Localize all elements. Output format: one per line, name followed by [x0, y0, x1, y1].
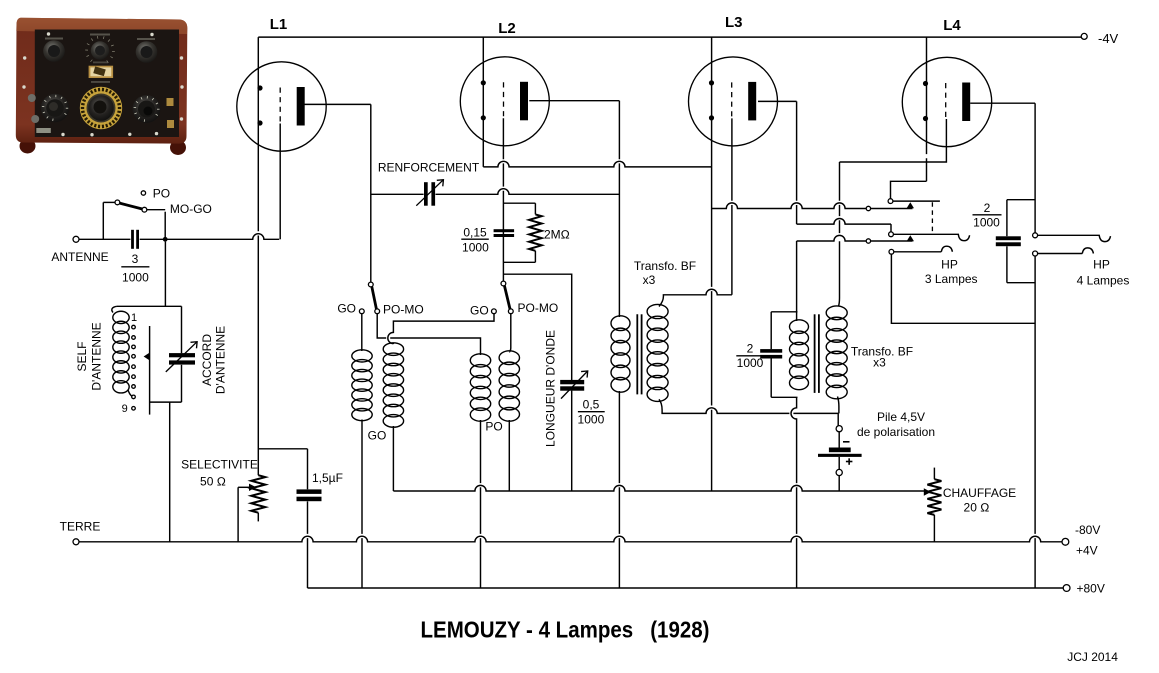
- svg-text:PO-MO: PO-MO: [383, 303, 424, 317]
- wire antenna line: [79, 234, 279, 240]
- svg-text:L4: L4: [943, 17, 961, 34]
- inductor SELF D'ANTENNE: [75, 306, 134, 396]
- capacitor RENFORCEMENT variable: [378, 161, 480, 206]
- svg-text:+80V: +80V: [1077, 581, 1105, 595]
- switch 1 GO PO-MO: [337, 282, 423, 316]
- svg-text:Pile 4,5V: Pile 4,5V: [877, 410, 925, 424]
- transformer Transfo BF x3 (1) primary: [611, 316, 630, 392]
- wire L2 filament line: [482, 37, 484, 167]
- wire lower fixed contact line: [797, 235, 913, 243]
- wire coil A down: [361, 420, 363, 589]
- wire L4 grid line: [840, 119, 947, 162]
- svg-text:50 Ω: 50 Ω: [200, 475, 226, 489]
- svg-text:1000: 1000: [578, 412, 605, 426]
- wire tank bottom rail: [150, 401, 182, 403]
- svg-text:-80V: -80V: [1075, 523, 1100, 537]
- svg-text:GO: GO: [470, 304, 489, 318]
- tube L2: [460, 20, 549, 146]
- svg-text:JCJ 2014: JCJ 2014: [1067, 650, 1118, 664]
- wire to longueur cap: [503, 274, 571, 380]
- svg-text:de polarisation: de polarisation: [857, 425, 935, 439]
- wire renforcement line: [371, 189, 620, 195]
- wire grid coupling link: [388, 314, 494, 344]
- wire L3 grid line: [731, 118, 733, 294]
- wire transfo2 secondary top to L4 grid: [838, 162, 839, 307]
- wire L3 filament line: [711, 37, 713, 491]
- wire +80V bus: [308, 587, 1064, 589]
- svg-text:1000: 1000: [973, 216, 1000, 230]
- wire -4V top bus: [258, 36, 1081, 38]
- svg-text:D'ANTENNE: D'ANTENNE: [89, 322, 103, 390]
- svg-text:PO-MO: PO-MO: [518, 301, 559, 315]
- wire transfo1 primary down: [618, 391, 620, 588]
- terminal +80V: [1063, 581, 1105, 595]
- terminal ANTENNE: [51, 236, 108, 264]
- wire selectivite top to 1,5uF: [258, 448, 307, 450]
- wire L3 plate down: [796, 101, 798, 224]
- svg-text:4 Lampes: 4 Lampes: [1077, 273, 1130, 287]
- svg-text:3: 3: [132, 252, 139, 266]
- svg-text:CHAUFFAGE: CHAUFFAGE: [943, 486, 1016, 500]
- inductor coil B grid: [383, 343, 403, 427]
- wire L3 plate to lower blade: [797, 219, 891, 232]
- wire GO1 to coil A: [361, 314, 363, 351]
- capacitor 2/1000 transfo2 parallel: [736, 312, 797, 398]
- capacitor ACCORD D'ANTENNE variable: [166, 306, 228, 402]
- svg-text:GO: GO: [337, 302, 356, 316]
- wire coil D to filament bus: [508, 420, 510, 491]
- wire L1 grid line: [279, 124, 281, 240]
- svg-text:PO: PO: [153, 187, 170, 201]
- wire L1 filament line: [257, 37, 259, 475]
- wire longueur cap down: [571, 391, 573, 491]
- svg-text:L3: L3: [725, 14, 743, 31]
- svg-text:1000: 1000: [462, 241, 489, 255]
- switch MO-GO antenna shorting: [103, 187, 212, 240]
- mechanical link dashed: [931, 202, 933, 233]
- svg-text:1: 1: [131, 312, 137, 324]
- transformer Transfo BF x3 (1) secondary: [634, 259, 696, 402]
- svg-text:PO: PO: [485, 420, 502, 434]
- inductor coil D: [499, 351, 519, 421]
- svg-text:+4V: +4V: [1076, 544, 1098, 558]
- wire 2M rail bottom: [503, 261, 535, 263]
- svg-text:D'ANTENNE: D'ANTENNE: [214, 326, 228, 394]
- svg-text:L1: L1: [270, 16, 288, 33]
- wire transfo2 primary feed: [796, 241, 798, 321]
- wire L4 plate lead: [970, 102, 1035, 104]
- wire transfo2 primary down: [791, 397, 797, 588]
- svg-text:MO-GO: MO-GO: [170, 202, 212, 216]
- switch upper blade: [888, 199, 940, 208]
- svg-text:SELF: SELF: [75, 341, 89, 371]
- svg-text:RENFORCEMENT: RENFORCEMENT: [378, 161, 480, 175]
- tube L4: [902, 17, 991, 147]
- wire L4 filament to upper blade: [891, 181, 927, 198]
- svg-text:3 Lampes: 3 Lampes: [925, 272, 978, 286]
- svg-text:0,15: 0,15: [463, 225, 487, 239]
- wire L4 filament line: [926, 37, 928, 181]
- transformer Transfo BF x3 (2) secondary: [826, 306, 913, 399]
- svg-text:2: 2: [984, 201, 991, 215]
- svg-text:LEMOUZY - 4 Lampes (1928): LEMOUZY - 4 Lampes (1928): [421, 617, 710, 643]
- svg-text:1,5µF: 1,5µF: [312, 471, 343, 485]
- capacitor 3/1000 antenna series: [121, 230, 149, 285]
- photo of LEMOUZY radio cabinet: [16, 18, 188, 155]
- terminal -4V: [1081, 31, 1118, 46]
- wire coil B to filament bus: [392, 426, 394, 491]
- svg-text:x3: x3: [873, 356, 886, 370]
- svg-text:SELECTIVITE: SELECTIVITE: [181, 458, 258, 472]
- svg-text:HP: HP: [1093, 258, 1110, 272]
- capacitor LONGUEUR D'ONDE 0,5/1000: [544, 330, 605, 447]
- wire tank feed: [164, 242, 166, 307]
- wire L2 plate down / transfo1 primary: [618, 101, 620, 317]
- wire tank top rail: [117, 305, 182, 307]
- svg-text:1000: 1000: [122, 271, 149, 285]
- signature: [1067, 650, 1118, 664]
- battery Pile 4,5V de polarisation: [818, 410, 935, 491]
- wire transfo1 secondary top to L3 grid: [659, 289, 732, 306]
- connector HP 4 Lampes: [1033, 233, 1130, 287]
- svg-text:0,5: 0,5: [583, 397, 600, 411]
- wire tank to TERRE: [169, 402, 171, 542]
- tube L1: [237, 16, 326, 151]
- svg-text:9: 9: [122, 403, 128, 415]
- switch 2 GO PO-MO: [470, 281, 558, 317]
- resistor SELECTIVITE 50 ohm: [181, 458, 265, 542]
- inductor coil C PO: [470, 354, 502, 434]
- wire L3 plate lead: [758, 100, 797, 102]
- svg-text:HP: HP: [941, 257, 958, 271]
- wire L1 plate lead: [304, 104, 371, 282]
- capacitor 0,15/1000 grid: [461, 225, 514, 254]
- wire 2M rail top: [503, 202, 535, 204]
- terminal -80V +4V: [1062, 523, 1100, 558]
- wire PO-MO2 to coil D: [509, 314, 511, 352]
- terminal TERRE: [60, 520, 101, 545]
- transformer Transfo BF x3 (2) primary: [790, 320, 809, 390]
- svg-text:TERRE: TERRE: [60, 520, 101, 534]
- wire L2 plate lead: [529, 100, 619, 102]
- resistor 2M grid leak: [529, 203, 570, 262]
- transformer core 1: [637, 314, 641, 394]
- wire L4 plate down: [1034, 103, 1036, 588]
- svg-text:x3: x3: [643, 273, 656, 287]
- svg-text:ANTENNE: ANTENNE: [51, 250, 108, 264]
- wire coil C down: [480, 420, 482, 588]
- wire TERRE bus: [79, 536, 1062, 542]
- wire L2 grid line: [502, 118, 504, 281]
- inductor coil A GO: [352, 350, 387, 442]
- svg-text:2: 2: [747, 341, 754, 355]
- svg-text:1000: 1000: [737, 356, 764, 370]
- wire filament bus: [393, 485, 924, 491]
- connector HP 3 Lampes: [889, 246, 978, 286]
- svg-text:GO: GO: [368, 428, 387, 442]
- svg-text:20 Ω: 20 Ω: [964, 500, 990, 514]
- tap circles 1-9: [122, 312, 137, 415]
- tube L3: [689, 14, 778, 146]
- switch lower blade with hook: [889, 232, 970, 241]
- svg-text:LONGUEUR D'ONDE: LONGUEUR D'ONDE: [544, 330, 558, 447]
- svg-text:ACCORD: ACCORD: [200, 334, 214, 386]
- tap selector bar with arrow: [144, 326, 150, 415]
- title: [421, 617, 710, 643]
- wire transfo1 secondary bottom to bias line: [659, 399, 838, 425]
- capacitor 1,5uF: [297, 449, 343, 588]
- wire HP3L return: [891, 254, 1035, 323]
- svg-text:2MΩ: 2MΩ: [544, 228, 570, 242]
- capacitor 2/1000 HP: [973, 200, 1036, 283]
- wire L3 filament return: [712, 203, 913, 211]
- svg-text:Transfo. BF: Transfo. BF: [634, 259, 696, 273]
- wire transfo2 secondary bottom lead: [838, 397, 839, 414]
- node antenna junction: [163, 237, 168, 242]
- wire PO-MO1 to coil C: [377, 314, 480, 355]
- transformer core 2: [815, 314, 819, 393]
- resistor CHAUFFAGE 20 ohm: [924, 468, 1016, 542]
- svg-text:L2: L2: [498, 20, 516, 37]
- svg-text:-4V: -4V: [1098, 31, 1119, 46]
- wire L2 filament return: [483, 161, 711, 167]
